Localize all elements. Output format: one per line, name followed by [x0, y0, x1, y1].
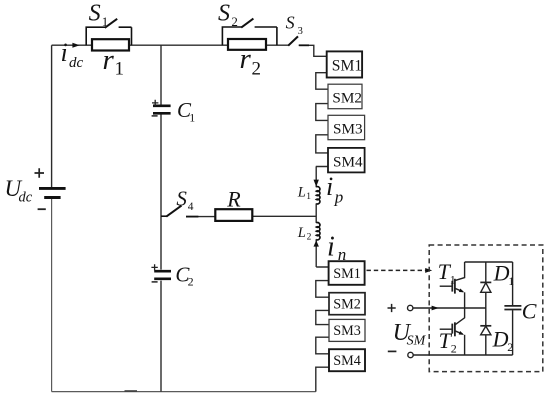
wire: between L1 and L2 through midpoint node [315, 203, 317, 223]
bottom bus wire [52, 391, 316, 393]
svg-text:SM2: SM2 [333, 296, 361, 312]
capacitor C2 plates [154, 270, 171, 273]
dashed link from lower SM1 to submodule detail [367, 269, 426, 271]
svg-text:2: 2 [231, 14, 238, 29]
wire: middle branch C2 to bottom bus [160, 281, 162, 392]
svg-text:S: S [218, 1, 230, 27]
svg-text:2: 2 [451, 341, 457, 355]
wire: lower SM4 to bottom bus [316, 367, 329, 391]
svg-text:SM3: SM3 [333, 323, 361, 339]
svg-text:1: 1 [189, 110, 195, 124]
svg-text:2: 2 [188, 275, 194, 289]
svg-text:D: D [493, 261, 510, 286]
wire: link upper SM2 to SM3 [316, 104, 328, 121]
wire: upper SM4 down to arm inductor L1 [316, 167, 328, 188]
svg-text:i: i [327, 231, 335, 262]
svg-text:L: L [297, 225, 306, 241]
submodule SM2 (lower arm) [329, 293, 365, 315]
terminal circle positive [408, 305, 413, 310]
svg-text:1: 1 [102, 14, 109, 29]
resistor r1 [92, 39, 129, 50]
svg-text:S: S [176, 186, 187, 210]
submodule SM4 (lower arm) [329, 349, 365, 371]
submodule SM1 (lower arm) [329, 261, 365, 285]
svg-text:SM: SM [407, 333, 427, 348]
svg-text:D: D [492, 327, 509, 352]
svg-text:SM4: SM4 [333, 353, 361, 369]
wire: negative terminal bottom rail [413, 354, 512, 356]
wire: r2 to switch S3 hinge [266, 44, 289, 46]
svg-text:1: 1 [115, 59, 125, 80]
battery U_dc negative plate [44, 196, 60, 199]
IGBT T2 [440, 308, 465, 355]
current arrow i_dc [72, 43, 79, 48]
battery plus sign [35, 168, 45, 177]
wire: left vertical from top bus to battery positive plate [51, 45, 53, 187]
inductor L2 [316, 223, 320, 240]
wire: S4 contact to resistor R [186, 216, 215, 218]
svg-text:L: L [297, 185, 306, 201]
wire: L2 down to lower SM1 [316, 239, 329, 267]
wire: top bus from U_dc corner to r1 [52, 44, 92, 46]
wire: link upper SM1 to SM2 [316, 73, 328, 90]
current arrow i_n (up) [314, 240, 319, 246]
svg-text:dc: dc [69, 55, 84, 71]
C2 polarity minus [152, 281, 158, 283]
svg-text:p: p [334, 188, 344, 207]
current arrow i_p (down) [314, 180, 319, 187]
wire: middle branch from top bus to capacitor C1 [160, 45, 162, 104]
svg-text:SM2: SM2 [332, 90, 362, 107]
wire: top rail of half-bridge [465, 261, 513, 263]
svg-text:dc: dc [19, 190, 33, 206]
switch S3 [288, 36, 309, 45]
svg-text:SM3: SM3 [333, 121, 363, 138]
svg-text:i: i [326, 172, 333, 201]
submodule SM2 (upper arm) [328, 84, 362, 109]
svg-text:SM1: SM1 [333, 266, 361, 282]
svg-text:r: r [240, 43, 252, 75]
C2 polarity plus [151, 264, 157, 270]
svg-text:4: 4 [188, 201, 194, 213]
diode D1 [480, 262, 491, 308]
battery minus sign [38, 208, 46, 210]
switch S2 (bypass of r2) [222, 19, 277, 46]
svg-text:S: S [89, 1, 101, 27]
resistor r2 [228, 39, 266, 50]
svg-text:r: r [103, 44, 115, 76]
submodule SM3 (upper arm) [328, 115, 365, 139]
diode D2 [480, 308, 491, 355]
switch S1 (bypass of r1) [86, 19, 131, 45]
plus sign at U_SM [388, 304, 396, 312]
wire: link upper SM3 to SM4 [316, 135, 328, 153]
capacitor C of submodule [504, 262, 521, 355]
wire: positive terminal to phase midpoint rail [413, 307, 486, 309]
svg-text:C: C [522, 298, 537, 323]
capacitor C1 plates [153, 104, 171, 107]
terminal circle negative [408, 352, 413, 357]
svg-text:SM4: SM4 [333, 153, 363, 170]
switch S4 [161, 206, 198, 217]
svg-text:1: 1 [450, 272, 456, 286]
arrow on midpoint rail [432, 306, 439, 311]
wire: top bus between r1 and r2 [129, 44, 228, 46]
submodule SM1 (upper arm) [327, 51, 362, 77]
wire: S3 contact down to submodule SM1 upper [299, 45, 327, 56]
svg-text:R: R [226, 187, 241, 212]
svg-text:2: 2 [252, 59, 262, 80]
svg-text:3: 3 [298, 26, 303, 37]
minus sign at U_SM [388, 350, 397, 352]
IGBT T1 [440, 262, 465, 308]
svg-text:SM1: SM1 [332, 57, 362, 74]
battery U_dc positive plate [39, 187, 66, 190]
svg-text:1: 1 [306, 192, 311, 202]
C1 polarity minus [152, 115, 158, 117]
wire: left vertical from battery to bottom bus [51, 199, 53, 392]
submodule SM4 (upper arm) [328, 148, 365, 173]
wire: link lower SM3 to SM4 [316, 337, 329, 354]
wire: middle branch C1 to C2 through S4 node [160, 114, 162, 269]
wire: link lower SM1 to SM2 [316, 281, 329, 298]
resistor R [215, 209, 252, 221]
inductor L1 [316, 187, 320, 204]
wire: link lower SM2 to SM3 [316, 310, 329, 324]
svg-text:S: S [286, 13, 295, 33]
C1 polarity plus [152, 100, 158, 106]
wire: R to arm midpoint node [252, 215, 316, 217]
dashed submodule boundary box [429, 245, 543, 372]
svg-text:i: i [61, 38, 68, 67]
submodule SM3 (lower arm) [329, 319, 365, 341]
svg-text:2: 2 [307, 232, 312, 242]
wire overlap mark on bottom bus [125, 390, 138, 392]
